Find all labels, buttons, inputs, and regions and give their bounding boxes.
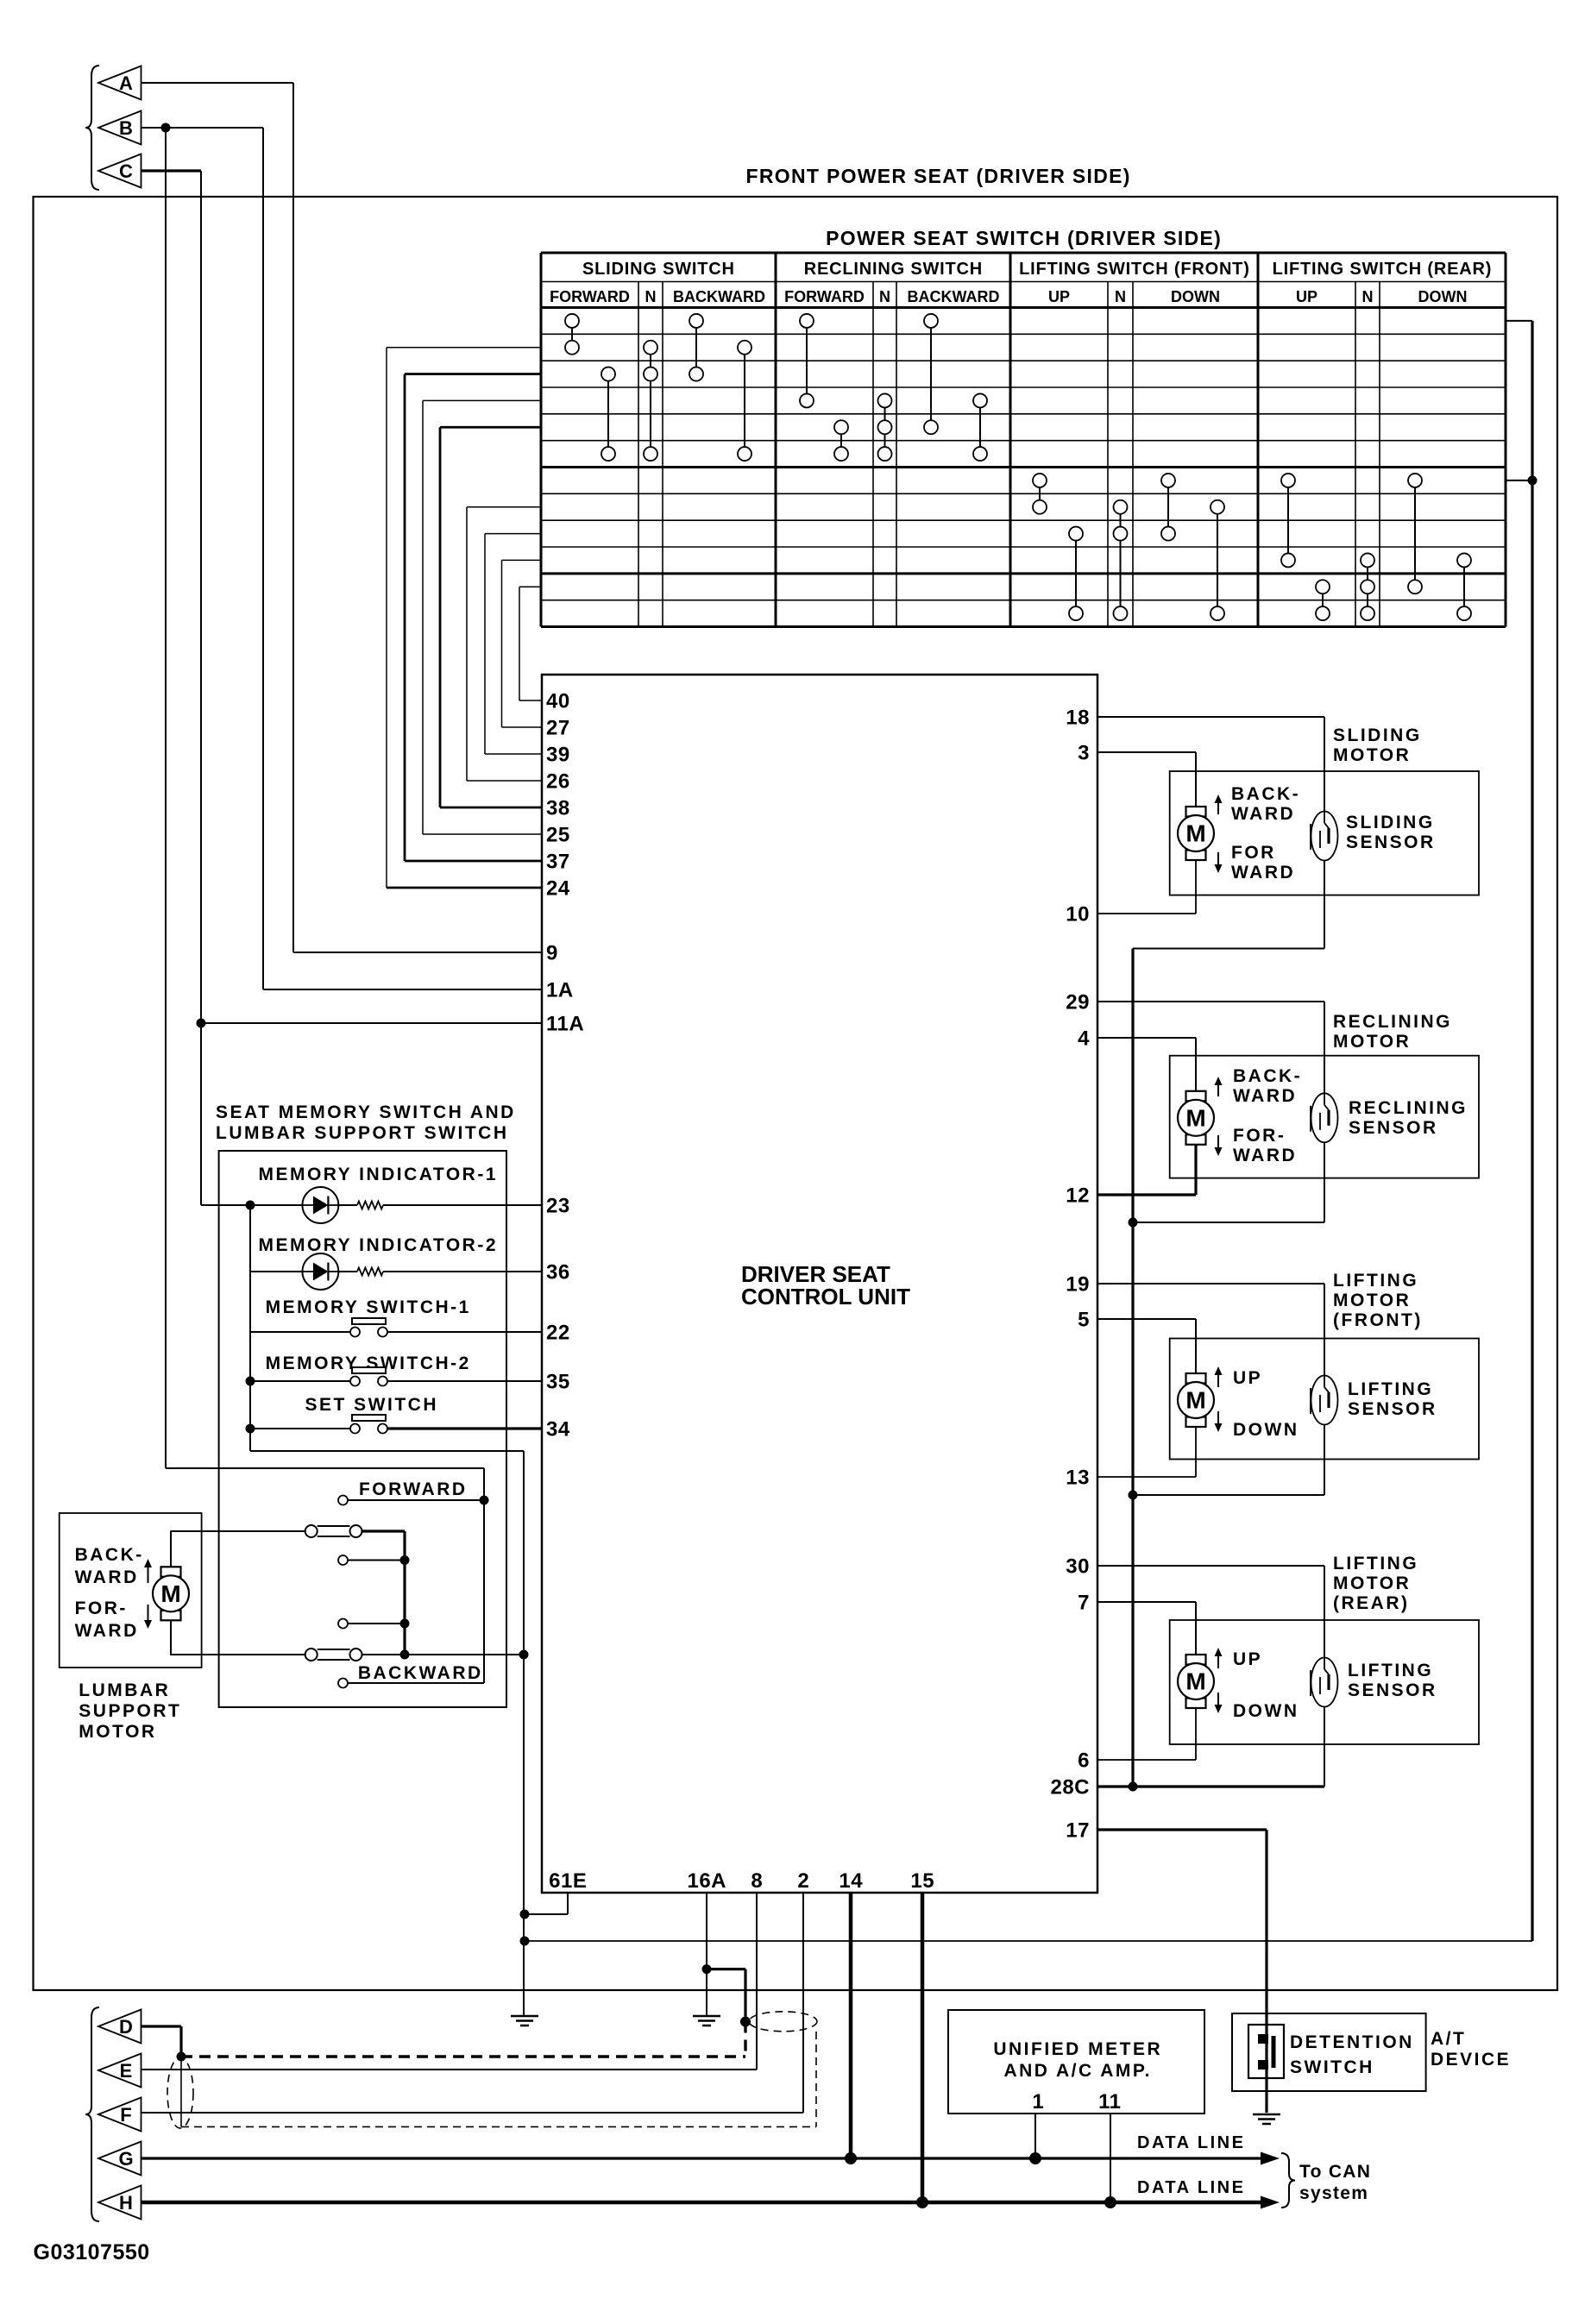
svg-text:WARD: WARD bbox=[75, 1567, 139, 1587]
svg-text:SUPPORT: SUPPORT bbox=[79, 1701, 181, 1721]
ground (main) bbox=[511, 2016, 538, 2026]
connector triangle F bbox=[98, 2098, 141, 2132]
lumbar forward contact bbox=[338, 1496, 484, 1505]
header SLIDING SWITCH bbox=[582, 260, 735, 279]
connector triangle H bbox=[98, 2186, 141, 2220]
unified meter and a/c amp box bbox=[948, 2010, 1204, 2114]
svg-text:FOR-: FOR- bbox=[1233, 1126, 1286, 1146]
reclining sw N contacts bbox=[878, 393, 892, 461]
svg-text:LUMBAR SUPPORT SWITCH: LUMBAR SUPPORT SWITCH bbox=[216, 1123, 509, 1143]
detention switch inner box bbox=[1248, 2025, 1284, 2078]
connector triangle C bbox=[98, 154, 141, 188]
header LIFTING SWITCH (FRONT) bbox=[1019, 260, 1250, 279]
title FRONT POWER SEAT (DRIVER SIDE) bbox=[746, 165, 1131, 187]
label MEMORY SWITCH-1 bbox=[266, 1297, 471, 1317]
svg-text:SENSOR: SENSOR bbox=[1346, 832, 1436, 852]
svg-text:FOR: FOR bbox=[1231, 843, 1276, 863]
svg-text:30: 30 bbox=[1066, 1555, 1090, 1579]
lifting rear sensor to pin 28C bbox=[1324, 1707, 1325, 1787]
svg-text:11: 11 bbox=[1098, 2090, 1121, 2114]
svg-text:8: 8 bbox=[751, 1869, 763, 1893]
svg-text:SWITCH: SWITCH bbox=[1290, 2057, 1374, 2077]
lumbar contact 2 bbox=[338, 1555, 410, 1565]
svg-text:UP: UP bbox=[1233, 1368, 1262, 1388]
svg-text:E: E bbox=[120, 2060, 133, 2082]
svg-text:DOWN: DOWN bbox=[1233, 1701, 1299, 1721]
svg-text:MEMORY SWITCH-1: MEMORY SWITCH-1 bbox=[266, 1297, 471, 1317]
svg-text:4: 4 bbox=[1078, 1027, 1090, 1051]
lumbar motor wires bbox=[170, 1531, 172, 1655]
wire pin 2 to connector F bbox=[141, 1893, 803, 2113]
wire C to pin 11A bbox=[141, 171, 543, 1205]
wire lifting motor (rear) motor to pin 6 bbox=[1097, 1708, 1196, 1760]
label reclining motor sensor bbox=[1349, 1098, 1468, 1138]
node C wire / 11A bbox=[197, 1019, 206, 1028]
label sliding motor sensor bbox=[1346, 813, 1436, 852]
svg-text:A: A bbox=[119, 72, 133, 94]
connector oval (left) bbox=[167, 2057, 193, 2128]
brace for connectors D-H bbox=[85, 2007, 99, 2221]
svg-text:MOTOR: MOTOR bbox=[79, 1722, 156, 1742]
svg-text:C: C bbox=[119, 160, 133, 182]
connector triangle D bbox=[98, 2010, 141, 2044]
svg-text:MEMORY INDICATOR-2: MEMORY INDICATOR-2 bbox=[258, 1235, 498, 1255]
svg-text:MOTOR: MOTOR bbox=[1333, 1291, 1411, 1310]
svg-text:DOWN: DOWN bbox=[1418, 288, 1468, 305]
svg-text:M: M bbox=[160, 1580, 180, 1607]
label lifting motor (rear) sensor bbox=[1348, 1661, 1437, 1700]
sliding sw N contacts bbox=[644, 341, 657, 461]
sliding sensor to common rail bbox=[1133, 861, 1324, 949]
svg-text:system: system bbox=[1299, 2183, 1368, 2203]
svg-text:SLIDING: SLIDING bbox=[1333, 725, 1422, 745]
wire pin 15 to data line bbox=[921, 1893, 925, 2202]
label DETENTION SWITCH bbox=[1290, 2032, 1414, 2077]
arrow up (lumbar motor) bbox=[144, 1559, 152, 1583]
shield dashed wire to connector D bbox=[181, 2022, 745, 2057]
svg-text:D: D bbox=[119, 2016, 133, 2038]
label BACKWARD (lumbar) bbox=[358, 1663, 483, 1683]
lifting front sw UP contacts a bbox=[1033, 474, 1047, 514]
svg-text:LIFTING SWITCH (FRONT): LIFTING SWITCH (FRONT) bbox=[1019, 260, 1250, 279]
svg-text:SENSOR: SENSOR bbox=[1348, 1680, 1437, 1700]
reclining motor sensor bbox=[1311, 1093, 1338, 1142]
svg-text:FORWARD: FORWARD bbox=[784, 288, 865, 305]
wire pin 61E to ground rail bbox=[520, 1893, 569, 1919]
wire sliding motor motor to pin 10 bbox=[1097, 860, 1196, 914]
svg-text:5: 5 bbox=[1078, 1309, 1090, 1332]
lifting front sensor to common rail bbox=[1129, 1425, 1325, 1500]
memory switch-1 bbox=[350, 1318, 387, 1337]
set switch bbox=[350, 1415, 387, 1434]
connector oval (right) bbox=[749, 2012, 817, 2032]
wire unified pin 11 bbox=[1110, 2114, 1111, 2202]
label MEMORY SWITCH-2 bbox=[266, 1354, 471, 1373]
svg-text:13: 13 bbox=[1066, 1467, 1090, 1490]
wire table row 10 to pin 27 bbox=[502, 560, 543, 727]
wire pin 7 to lifting motor (rear) motor bbox=[1097, 1602, 1196, 1655]
svg-text:MOTOR: MOTOR bbox=[1333, 1573, 1411, 1593]
wire table row 8 to pin 26 bbox=[467, 507, 542, 781]
svg-text:LIFTING: LIFTING bbox=[1333, 1271, 1418, 1291]
svg-text:14: 14 bbox=[839, 1869, 863, 1893]
wire table row 2 to pin 24 bbox=[387, 348, 542, 888]
wire indicator-1 to pin 23 bbox=[250, 1204, 542, 1206]
lumbar motor M bbox=[153, 1567, 189, 1620]
wire reclining motor motor to pin 12 bbox=[1097, 1145, 1196, 1195]
svg-text:WARD: WARD bbox=[1233, 1146, 1297, 1165]
lifting rear sw DOWN contacts a bbox=[1408, 474, 1422, 594]
wire memory switch-1 to pin 22 bbox=[250, 1331, 542, 1333]
outer enclosure box (FRONT POWER SEAT) bbox=[34, 197, 1558, 1990]
label DATA LINE (2) bbox=[1137, 2178, 1245, 2197]
driver seat control unit box bbox=[542, 675, 1097, 1893]
svg-text:18: 18 bbox=[1066, 707, 1090, 730]
svg-text:M: M bbox=[1185, 820, 1205, 847]
svg-text:BACKWARD: BACKWARD bbox=[358, 1663, 483, 1683]
reclining motor direction labels bbox=[1215, 1066, 1303, 1165]
wire pin 8 to connector E bbox=[141, 1893, 757, 2070]
svg-text:FRONT POWER SEAT (DRIVER SIDE): FRONT POWER SEAT (DRIVER SIDE) bbox=[746, 165, 1131, 187]
ground (detention switch) bbox=[1253, 2114, 1280, 2124]
sliding motor box bbox=[1170, 771, 1479, 895]
label FORWARD (lumbar) bbox=[359, 1479, 468, 1499]
wire table common to ground rail bbox=[525, 321, 1538, 1941]
resistor memory indicator-1 bbox=[357, 1202, 383, 1209]
svg-text:1A: 1A bbox=[546, 979, 574, 1002]
svg-text:LIFTING: LIFTING bbox=[1333, 1554, 1418, 1573]
wire pin 5 to lifting motor (front) motor bbox=[1097, 1319, 1196, 1373]
svg-text:23: 23 bbox=[546, 1195, 570, 1218]
lifting motor (front) M bbox=[1178, 1373, 1214, 1427]
svg-text:MEMORY INDICATOR-1: MEMORY INDICATOR-1 bbox=[258, 1165, 498, 1184]
label BACK-WARD (lumbar motor) bbox=[75, 1545, 144, 1587]
label lifting motor (rear) bbox=[1333, 1554, 1418, 1613]
label SEAT MEMORY SWITCH AND LUMBAR SUPPORT SWITCH bbox=[216, 1102, 516, 1143]
wire pin 14 to data line bbox=[849, 1893, 853, 2158]
connector triangle G bbox=[98, 2142, 141, 2176]
svg-text:25: 25 bbox=[546, 824, 570, 847]
svg-text:RECLINING: RECLINING bbox=[1333, 1012, 1452, 1032]
wire set switch to pin 34 bbox=[250, 1428, 542, 1429]
svg-text:WARD: WARD bbox=[1233, 1086, 1297, 1106]
header RECLINING SWITCH bbox=[804, 260, 983, 279]
svg-text:LIFTING SWITCH (REAR): LIFTING SWITCH (REAR) bbox=[1273, 260, 1493, 279]
node lumbar forward / B wire bbox=[480, 1496, 489, 1505]
control unit left pin labels bbox=[546, 690, 584, 1442]
svg-text:2: 2 bbox=[797, 1869, 809, 1893]
wire pin 29 to reclining motor sensor bbox=[1097, 1002, 1324, 1093]
brace To CAN system bbox=[1281, 2153, 1295, 2208]
lifting rear sw DOWN contacts b bbox=[1457, 553, 1471, 620]
svg-text:BACK-: BACK- bbox=[1231, 784, 1300, 804]
memory switch-2 bbox=[350, 1367, 387, 1386]
svg-text:DETENTION: DETENTION bbox=[1290, 2032, 1414, 2052]
ground rail node bbox=[520, 1937, 530, 1946]
svg-text:FORWARD: FORWARD bbox=[550, 288, 630, 305]
svg-text:G: G bbox=[118, 2148, 133, 2170]
header LIFTING SWITCH (REAR) bbox=[1273, 260, 1493, 279]
svg-text:SEAT MEMORY SWITCH AND: SEAT MEMORY SWITCH AND bbox=[216, 1102, 516, 1122]
reclining sensor to common rail bbox=[1129, 1142, 1325, 1227]
svg-text:H: H bbox=[119, 2192, 133, 2214]
svg-text:16A: 16A bbox=[687, 1869, 726, 1893]
label LUMBAR SUPPORT MOTOR bbox=[79, 1680, 181, 1742]
lifting front sw DOWN contacts a bbox=[1161, 474, 1175, 541]
node set switch common bbox=[246, 1424, 255, 1434]
wire pin 19 to lifting motor (front) sensor bbox=[1097, 1284, 1324, 1376]
thin dashed pair wire bbox=[181, 2032, 816, 2126]
node memory switch-2 common bbox=[246, 1377, 255, 1386]
sliding sw BACKWARD contacts b bbox=[738, 341, 751, 461]
lifting rear sw UP contacts a bbox=[1281, 474, 1295, 568]
wire table row 5 to pin 38 bbox=[440, 427, 542, 807]
svg-text:39: 39 bbox=[546, 744, 570, 767]
label POWER SEAT SWITCH (DRIVER SIDE) bbox=[826, 227, 1222, 249]
memory / lumbar switch box bbox=[219, 1151, 506, 1707]
detention switch box bbox=[1232, 2013, 1426, 2091]
lifting motor (front) direction labels bbox=[1215, 1366, 1299, 1440]
svg-text:RECLINING SWITCH: RECLINING SWITCH bbox=[804, 260, 983, 279]
svg-text:38: 38 bbox=[546, 797, 570, 820]
shield branch from 16A wire bbox=[702, 1964, 751, 2026]
connector triangle B bbox=[98, 111, 141, 145]
wire pin 3 to sliding motor motor bbox=[1097, 752, 1196, 807]
svg-text:M: M bbox=[1185, 1387, 1205, 1414]
connector triangle E bbox=[98, 2054, 141, 2088]
sliding sw FORWARD contacts b bbox=[601, 367, 615, 461]
wire table row 3 to pin 37 bbox=[405, 374, 542, 861]
svg-text:(FRONT): (FRONT) bbox=[1333, 1310, 1423, 1330]
wire lumbar top row bbox=[170, 1531, 405, 1655]
label MEMORY INDICATOR-2 bbox=[258, 1235, 498, 1255]
label G03107550 bbox=[34, 2240, 150, 2264]
svg-text:SLIDING SWITCH: SLIDING SWITCH bbox=[582, 260, 735, 279]
unified meter pin labels bbox=[1032, 2090, 1121, 2114]
lifting motor (front) box bbox=[1170, 1339, 1479, 1460]
svg-text:DEVICE: DEVICE bbox=[1431, 2050, 1511, 2070]
svg-text:FOR-: FOR- bbox=[75, 1599, 128, 1618]
label lifting motor (front) sensor bbox=[1348, 1379, 1437, 1419]
svg-text:UP: UP bbox=[1296, 288, 1317, 305]
node indicator common top bbox=[246, 1201, 255, 1210]
label DRIVER SEAT CONTROL UNIT bbox=[741, 1261, 910, 1310]
svg-text:35: 35 bbox=[546, 1371, 570, 1394]
lumbar backward contact bbox=[338, 1679, 484, 1688]
label To CAN system bbox=[1299, 2162, 1371, 2203]
svg-text:SENSOR: SENSOR bbox=[1348, 1399, 1437, 1419]
wire pin 17 to detention switch bbox=[1097, 1830, 1267, 2113]
svg-text:9: 9 bbox=[546, 942, 558, 965]
svg-text:7: 7 bbox=[1078, 1592, 1090, 1615]
svg-text:DOWN: DOWN bbox=[1171, 288, 1220, 305]
label reclining motor bbox=[1333, 1012, 1452, 1052]
wire indicator-2 to pin 36 bbox=[250, 1271, 542, 1272]
LED memory indicator-1 bbox=[302, 1187, 338, 1223]
svg-text:A/T: A/T bbox=[1431, 2029, 1466, 2049]
svg-text:UP: UP bbox=[1233, 1649, 1262, 1669]
svg-text:15: 15 bbox=[910, 1869, 934, 1893]
lifting motor (rear) sensor bbox=[1311, 1658, 1338, 1707]
svg-text:34: 34 bbox=[546, 1418, 570, 1442]
sliding motor M bbox=[1178, 807, 1214, 860]
detention switch symbol bbox=[1258, 2034, 1273, 2070]
svg-text:6: 6 bbox=[1078, 1749, 1090, 1773]
svg-text:11A: 11A bbox=[546, 1013, 584, 1036]
svg-text:28C: 28C bbox=[1050, 1776, 1090, 1800]
label MEMORY INDICATOR-1 bbox=[258, 1165, 498, 1184]
svg-text:DATA LINE: DATA LINE bbox=[1137, 2133, 1245, 2152]
reclining motor box bbox=[1170, 1056, 1479, 1178]
svg-text:B: B bbox=[119, 117, 133, 139]
svg-text:SENSOR: SENSOR bbox=[1349, 1118, 1438, 1138]
svg-text:MOTOR: MOTOR bbox=[1333, 1032, 1411, 1052]
lifting rear sw N contacts bbox=[1361, 553, 1374, 620]
lumbar slider top bbox=[305, 1525, 362, 1537]
wire B branch to lumbar switch bbox=[166, 128, 484, 1683]
brace for connectors A-C bbox=[85, 66, 99, 190]
svg-text:27: 27 bbox=[546, 717, 570, 740]
label FOR-WARD (lumbar motor) bbox=[75, 1599, 139, 1641]
wire pin 30 to lifting motor (rear) sensor bbox=[1097, 1566, 1324, 1658]
wire table row 9 to pin 39 bbox=[485, 534, 542, 754]
svg-text:24: 24 bbox=[546, 877, 570, 901]
svg-text:POWER SEAT SWITCH (DRIVER SIDE: POWER SEAT SWITCH (DRIVER SIDE) bbox=[826, 227, 1222, 249]
svg-text:G03107550: G03107550 bbox=[34, 2240, 150, 2264]
svg-text:BACKWARD: BACKWARD bbox=[673, 288, 765, 305]
wire pin 4 to reclining motor motor bbox=[1097, 1038, 1196, 1091]
svg-text:MOTOR: MOTOR bbox=[1333, 745, 1411, 765]
node connector D shield bbox=[177, 2052, 186, 2062]
svg-text:SLIDING: SLIDING bbox=[1346, 813, 1435, 832]
svg-text:N: N bbox=[645, 288, 657, 305]
wire B to pin 1A bbox=[141, 128, 543, 989]
wire lumbar bottom row bbox=[170, 1650, 528, 1660]
control unit right pin labels bbox=[1050, 707, 1090, 1843]
svg-text:FORWARD: FORWARD bbox=[359, 1479, 468, 1499]
svg-text:LIFTING: LIFTING bbox=[1348, 1661, 1433, 1680]
lumbar support motor box bbox=[60, 1513, 202, 1668]
svg-text:UNIFIED METER: UNIFIED METER bbox=[993, 2039, 1162, 2059]
sliding motor direction labels bbox=[1215, 784, 1301, 882]
sliding sw FORWARD contacts a bbox=[565, 314, 579, 355]
svg-text:RECLINING: RECLINING bbox=[1349, 1098, 1468, 1118]
svg-text:LUMBAR: LUMBAR bbox=[79, 1680, 170, 1700]
svg-text:BACK-: BACK- bbox=[1233, 1066, 1302, 1086]
svg-text:WARD: WARD bbox=[75, 1621, 139, 1641]
reclining sw BACKWARD contacts a bbox=[924, 314, 938, 434]
wire memory switch-2 to pin 35 bbox=[250, 1380, 542, 1382]
arrow down (lumbar motor) bbox=[144, 1605, 152, 1629]
svg-text:(REAR): (REAR) bbox=[1333, 1593, 1410, 1613]
reclining motor M bbox=[1178, 1091, 1214, 1145]
table sub headers bbox=[550, 288, 1467, 305]
label lifting motor (front) bbox=[1333, 1271, 1423, 1330]
svg-text:M: M bbox=[1185, 1668, 1205, 1695]
lifting front sw N contacts bbox=[1114, 500, 1128, 620]
reclining sw FORWARD contacts b bbox=[834, 420, 848, 461]
label sliding motor bbox=[1333, 725, 1422, 765]
svg-text:1: 1 bbox=[1032, 2090, 1044, 2114]
label DATA LINE (1) bbox=[1137, 2133, 1245, 2152]
lumbar contact 3 bbox=[338, 1619, 410, 1629]
svg-text:22: 22 bbox=[546, 1322, 570, 1345]
svg-text:3: 3 bbox=[1078, 742, 1090, 765]
svg-text:SET SWITCH: SET SWITCH bbox=[305, 1395, 439, 1415]
svg-text:19: 19 bbox=[1066, 1273, 1090, 1297]
wire table row 4 to pin 25 bbox=[423, 400, 542, 834]
lifting motor (rear) direction labels bbox=[1215, 1648, 1299, 1721]
svg-text:DATA LINE: DATA LINE bbox=[1137, 2178, 1245, 2197]
wire connector D bbox=[141, 2026, 182, 2057]
lifting rear sw UP contacts b bbox=[1316, 580, 1330, 620]
svg-text:BACKWARD: BACKWARD bbox=[908, 288, 1000, 305]
svg-text:37: 37 bbox=[546, 851, 570, 874]
svg-text:To CAN: To CAN bbox=[1299, 2162, 1371, 2182]
reclining sw FORWARD contacts a bbox=[800, 314, 814, 408]
reclining sw BACKWARD contacts b bbox=[973, 393, 987, 461]
lifting motor (rear) M bbox=[1178, 1655, 1214, 1708]
svg-text:61E: 61E bbox=[549, 1869, 587, 1893]
lifting front sw UP contacts b bbox=[1069, 527, 1083, 621]
wire table row 11 to pin 40 bbox=[519, 587, 542, 700]
wire C to memory indicators bbox=[201, 1204, 250, 1206]
svg-text:DOWN: DOWN bbox=[1233, 1420, 1299, 1440]
svg-text:29: 29 bbox=[1066, 991, 1090, 1014]
svg-text:F: F bbox=[120, 2104, 131, 2126]
lifting motor (rear) box bbox=[1170, 1620, 1479, 1744]
svg-text:12: 12 bbox=[1066, 1184, 1090, 1208]
resistor memory indicator-2 bbox=[357, 1268, 383, 1276]
label UNIFIED METER AND A/C AMP. bbox=[993, 2039, 1162, 2081]
label SET SWITCH bbox=[305, 1395, 439, 1415]
memory common to ground rail bbox=[250, 1429, 524, 2016]
control unit bottom pin labels bbox=[549, 1869, 934, 1893]
svg-text:AND A/C AMP.: AND A/C AMP. bbox=[1003, 2061, 1152, 2081]
lifting front sw DOWN contacts b bbox=[1211, 500, 1224, 620]
data line from G bbox=[141, 2152, 1280, 2165]
indicator common rail bbox=[249, 1205, 251, 1429]
wire pin 28C bbox=[1097, 1782, 1324, 1792]
lifting motor (front) sensor bbox=[1311, 1376, 1338, 1425]
label A/T DEVICE bbox=[1431, 2029, 1511, 2070]
wire lifting motor (front) motor to pin 13 bbox=[1097, 1427, 1196, 1477]
wire pin 18 to sliding motor sensor bbox=[1097, 717, 1324, 812]
wire unified pin 1 bbox=[1034, 2114, 1036, 2158]
svg-text:26: 26 bbox=[546, 770, 570, 794]
svg-text:40: 40 bbox=[546, 690, 570, 713]
sliding sw BACKWARD contacts a bbox=[689, 314, 703, 381]
wire A to pin 9 bbox=[141, 83, 543, 952]
wire pin 16A to ground bbox=[706, 1893, 707, 2016]
sensor common rail to pin 28C bbox=[1131, 949, 1134, 1787]
svg-text:N: N bbox=[879, 288, 890, 305]
svg-text:WARD: WARD bbox=[1231, 804, 1295, 824]
ground (16A) bbox=[693, 2016, 720, 2026]
svg-text:M: M bbox=[1185, 1104, 1205, 1131]
svg-text:N: N bbox=[1362, 288, 1374, 305]
data line from H bbox=[141, 2196, 1280, 2209]
svg-text:BACK-: BACK- bbox=[75, 1545, 144, 1565]
connector triangle A bbox=[98, 66, 141, 100]
lumbar slider bottom bbox=[305, 1649, 362, 1661]
LED memory indicator-2 bbox=[302, 1253, 338, 1290]
svg-text:WARD: WARD bbox=[1231, 863, 1295, 882]
svg-text:N: N bbox=[1115, 288, 1126, 305]
switch table frame bbox=[541, 253, 1506, 627]
svg-text:CONTROL UNIT: CONTROL UNIT bbox=[741, 1284, 910, 1310]
node on wire B bbox=[161, 123, 171, 133]
